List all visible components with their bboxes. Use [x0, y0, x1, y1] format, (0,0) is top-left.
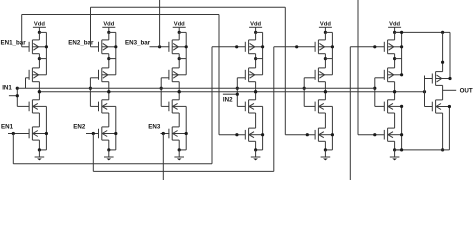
wire NMOS link stack 6 [394, 113, 396, 128]
wire EN2 lead [86, 133, 99, 135]
node body junction PMOS top stack 1 [45, 45, 48, 48]
node ground junction stack 5 [324, 148, 327, 151]
node NMOS2 body junction stack 4 [261, 133, 264, 136]
wire EN3 lead [161, 133, 170, 135]
wire EN2 drop [92, 134, 94, 172]
node gate bus on IN1 line stack 5 [303, 87, 306, 90]
wire NMOS1 gate stub stack 1 [17, 105, 29, 107]
wire body bus stack 3 [185, 32, 187, 74]
wire EN3_bar lead [150, 46, 170, 48]
node body junction PMOS top stack 4 [261, 45, 264, 48]
wire PMOS2 gate stub stack 2 [90, 77, 98, 79]
transistor PMOS bottom stack 4 [244, 70, 246, 80]
wire output NMOS gate stub [425, 106, 433, 108]
svg-text:Vdd: Vdd [320, 21, 331, 27]
node ground junction stack 6 [393, 148, 396, 151]
node output junction stack 1 [38, 90, 41, 93]
node NMOS2 body junction stack 2 [114, 132, 117, 135]
wire bus top stack 1 [39, 31, 46, 33]
wire ground route stack6 to output [395, 149, 450, 151]
wire bus to ground junction stack 5 [325, 149, 332, 151]
wire source-drain link stack 3 [178, 54, 180, 68]
wire EN1 lead [8, 133, 29, 135]
wire EN1 drop [12, 134, 14, 164]
wire body bus stack 1 [45, 32, 47, 74]
wire NMOS2 source stack 2 [108, 140, 110, 150]
svg-text:Vdd: Vdd [103, 21, 114, 27]
wire NMOS bus stack 5 [331, 106, 333, 149]
wire drain column stack 4 [255, 32, 257, 40]
node EN1 junction [12, 132, 15, 135]
wire PMOS2 drain to output stack 6 [394, 82, 396, 92]
wire NMOS1 drain stack 6 [394, 92, 396, 100]
transistor PMOS bottom stack 1 [28, 70, 30, 80]
transistor NMOS bottom stack 6 [383, 130, 385, 140]
wire output inverter body bus drop [449, 32, 451, 78]
wire PMOS2 bus tap stack 6 [395, 58, 402, 60]
wire NMOS1 drain stack 4 [255, 92, 257, 100]
node rail bus tap stack 6 [400, 31, 403, 34]
ground symbol stack 4 [255, 150, 257, 157]
wire shared output line [39, 91, 424, 93]
node PMOS2 source junction stack 3 [178, 57, 181, 60]
wire NMOS1 gate stub stack 3 [161, 105, 169, 107]
transistor PMOS bottom stack 3 [168, 70, 170, 80]
wire bus to ground junction stack 1 [39, 149, 46, 151]
node ground junction stack 4 [254, 148, 257, 151]
wire output PMOS supply drop [442, 32, 444, 71]
node output junction stack 6 [393, 90, 396, 93]
transistor output NMOS [431, 102, 433, 112]
wire PMOS2 drain to output stack 2 [108, 82, 110, 92]
svg-text:Vdd: Vdd [34, 21, 45, 27]
node output NMOS body junction [448, 105, 451, 108]
wire EN1 to stack4 PMOS1 gate [212, 46, 245, 48]
node Vdd-drain junction stack 3 [178, 31, 181, 34]
wire gate bus stack 3 [160, 78, 162, 107]
node stack6 PMOS2 body junction [400, 73, 403, 76]
node gate bus on IN1 line stack 6 [373, 87, 376, 90]
wire PMOS2 bus tap stack 4 [256, 58, 263, 60]
node PMOS2 source junction stack 5 [324, 57, 327, 60]
node ground junction stack 2 [107, 148, 110, 151]
wire PMOS2 gate stub stack 1 [26, 77, 30, 79]
wire NMOS link stack 1 [38, 113, 40, 127]
ground symbol stack 2 [108, 150, 110, 157]
svg-text:OUT: OUT [460, 88, 473, 95]
wire bus top stack 6 [395, 31, 402, 33]
node output junction stack 2 [107, 90, 110, 93]
wire source-drain link stack 2 [108, 54, 110, 68]
node output junction stack 3 [178, 90, 181, 93]
wire PMOS2 drain to output stack 3 [178, 82, 180, 92]
node output line stack taps [38, 90, 41, 93]
wire Vdd rail to output inverter [395, 31, 450, 33]
wire drain column stack 3 [178, 32, 180, 40]
svg-text:Vdd: Vdd [389, 21, 400, 27]
wire EN1_bar to stack4 NMOS2 gate [219, 134, 245, 136]
wire EN2_bar top route [91, 6, 286, 8]
transistor output PMOS [431, 74, 433, 84]
node stack6 NMOS1 body junction [400, 105, 403, 108]
wire NMOS1 gate stub stack 5 [304, 105, 315, 107]
wire NMOS bus stack 2 [115, 106, 117, 149]
wire body bus stack 2 [115, 32, 117, 74]
wire source-drain link stack 5 [324, 54, 326, 68]
wire gate bus stack 4 [236, 78, 238, 107]
wire EN1_bar drop [21, 15, 23, 47]
wire body bus stack 4 [262, 32, 264, 74]
wire gate bus stack 5 [303, 78, 305, 107]
node Vdd-drain junction stack 4 [254, 31, 257, 34]
node PMOS2 source junction stack 1 [38, 57, 41, 60]
wire output NMOS body bus drop [448, 107, 450, 150]
svg-text:EN3: EN3 [148, 123, 161, 130]
wire NMOS2 source stack 3 [178, 140, 180, 150]
wire output inverter gate bus [424, 76, 426, 107]
node ground junction stack 1 [38, 148, 41, 151]
wire NMOS1 drain stack 2 [108, 92, 110, 100]
wire IN2 lead [223, 93, 237, 95]
node Vdd-drain junction stack 6 [393, 31, 396, 34]
node gate bus on IN1 line stack 2 [89, 87, 92, 90]
wire NMOS2 source stack 4 [255, 141, 257, 150]
wire NMOS2 source stack 5 [324, 141, 326, 150]
wire NMOS bus stack 4 [262, 106, 264, 149]
node rail output supply tap [441, 31, 444, 34]
ground symbol stack 5 [324, 150, 326, 157]
wire NMOS1 gate stub stack 4 [237, 105, 245, 107]
node NMOS2 body junction stack 3 [185, 132, 188, 135]
node output junction stack 5 [324, 90, 327, 93]
transistor NMOS bottom stack 5 [314, 130, 316, 140]
wire source-drain link stack 6 [394, 54, 396, 68]
wire NMOS bus stack 3 [185, 106, 187, 149]
node IN1 bus top [16, 87, 19, 90]
transistor NMOS top stack 1 [28, 102, 30, 112]
wire NMOS1 drain stack 5 [324, 92, 326, 100]
wire NMOS1 gate stub stack 2 [90, 105, 98, 107]
svg-text:EN3_bar: EN3_bar [125, 40, 151, 47]
node EN1_bar gate junction [235, 133, 238, 136]
node EN3 junction [162, 132, 165, 135]
wire EN2 bottom route [93, 170, 273, 172]
transistor NMOS top stack 5 [314, 102, 316, 112]
node Vdd-drain junction stack 2 [107, 31, 110, 34]
node PMOS2 source junction stack 6 [393, 57, 396, 60]
wire PMOS2 gate stub stack 5 [304, 77, 315, 79]
wire gate bus stack 6 [374, 78, 376, 107]
wire EN1_bar drop right [218, 15, 220, 135]
node body junction PMOS top stack 2 [114, 45, 117, 48]
node EN3_bar junction [158, 45, 161, 48]
transistor NMOS bottom stack 2 [98, 129, 100, 139]
transistor PMOS bottom stack 2 [98, 70, 100, 80]
ground symbol stack 1 [38, 150, 40, 157]
transistor PMOS bottom stack 6 [383, 70, 385, 80]
node output NMOS ground junction [441, 148, 444, 151]
wire PMOS2 drain to output stack 5 [324, 82, 326, 92]
wire PMOS2 gate stub stack 4 [237, 77, 245, 79]
node NMOS2 body junction stack 5 [331, 133, 334, 136]
wire PMOS2 bus tap stack 3 [179, 58, 186, 60]
wire source-drain link stack 1 [38, 54, 40, 68]
wire EN1_bar lead [22, 46, 29, 48]
wire PMOS2 bus tap stack 2 [109, 58, 116, 60]
wire IN1 lead [9, 95, 17, 97]
wire EN3_bar drop right from top edge [357, 0, 359, 135]
wire EN1 riser [211, 47, 213, 164]
wire bus to ground junction stack 2 [109, 149, 116, 151]
wire NMOS1 drain stack 1 [38, 92, 40, 100]
node EN2_bar gate junction [306, 133, 309, 136]
wire IN1 distribution line [17, 87, 375, 89]
svg-text:IN1: IN1 [2, 85, 12, 92]
node gate bus on IN1 line stack 3 [160, 87, 163, 90]
wire EN2_bar drop right [284, 7, 286, 135]
wire drain column stack 1 [38, 32, 40, 40]
wire PMOS2 bus tap stack 5 [325, 58, 332, 60]
wire NMOS bus stack 1 [45, 106, 47, 149]
node EN1 gate junction [235, 45, 238, 48]
wire bus to ground junction stack 4 [256, 149, 263, 151]
ground symbol stack 3 [178, 150, 180, 157]
wire bus top stack 4 [256, 31, 263, 33]
wire bus top stack 3 [179, 31, 186, 33]
wire output node link [442, 85, 444, 100]
wire bus top stack 5 [325, 31, 332, 33]
wire PMOS2 drain to output stack 4 [255, 82, 257, 92]
svg-text:IN2: IN2 [223, 97, 233, 104]
wire PMOS2 gate stub stack 3 [161, 77, 169, 79]
wire EN1 bottom route [13, 163, 212, 165]
wire body bus stack 5 [331, 32, 333, 74]
transistor NMOS bottom stack 1 [28, 129, 30, 139]
transistor NMOS top stack 6 [383, 102, 385, 112]
node ground junction stack 3 [178, 148, 181, 151]
transistor PMOS top stack 3 [168, 42, 170, 52]
node output PMOS supply junction [441, 61, 444, 64]
wire NMOS2 source stack 1 [38, 140, 40, 150]
wire NMOS link stack 3 [178, 113, 180, 127]
transistor NMOS top stack 2 [98, 102, 100, 112]
node IN2 junction [236, 93, 239, 96]
node body junction PMOS top stack 6 [400, 45, 403, 48]
node EN2 junction [92, 132, 95, 135]
node Vdd-drain junction stack 5 [324, 31, 327, 34]
svg-text:EN1: EN1 [1, 123, 14, 130]
wire EN2_bar to stack5 NMOS2 gate [285, 134, 315, 136]
wire NMOS1 gate stub stack 6 [375, 105, 385, 107]
node NMOS2 body junction stack 6 [400, 133, 403, 136]
wire gate bus stack 2 [89, 78, 91, 107]
node Vdd-drain junction stack 1 [38, 31, 41, 34]
wire EN1_bar top route [22, 14, 219, 16]
wire EN2_bar drop [90, 7, 92, 47]
wire body bus stack 6 [401, 32, 403, 74]
transistor PMOS top stack 1 [28, 42, 30, 52]
node body junction PMOS top stack 3 [185, 45, 188, 48]
wire PMOS2 gate stub stack 6 [375, 77, 385, 79]
wire NMOS link stack 5 [324, 113, 326, 128]
wire NMOS link stack 2 [108, 113, 110, 127]
wire NMOS2 source stack 6 [394, 141, 396, 150]
wire PMOS2 gate riser stack 1 [25, 78, 27, 88]
node output junction stack 4 [254, 90, 257, 93]
wire EN3 riser from bottom edge [349, 47, 351, 180]
wire output NMOS source [442, 113, 444, 150]
wire EN3 to stack6 PMOS1 gate [350, 46, 384, 48]
ground symbol stack 6 [394, 150, 396, 157]
transistor PMOS top stack 2 [98, 42, 100, 52]
wire NMOS1 drain stack 3 [178, 92, 180, 100]
node EN3_bar gate junction [373, 133, 376, 136]
wire bus to ground junction stack 6 [395, 149, 402, 151]
wire NMOS link stack 4 [255, 113, 257, 128]
svg-text:EN2: EN2 [73, 123, 86, 130]
wire PMOS2 drain to output stack 1 [38, 82, 40, 92]
wire gate bus stack 1 [16, 88, 18, 106]
node output PMOS body junction [448, 77, 451, 80]
node gate bus on IN1 line stack 4 [236, 87, 239, 90]
transistor NMOS top stack 3 [168, 102, 170, 112]
svg-text:Vdd: Vdd [174, 21, 185, 27]
transistor PMOS top stack 5 [314, 42, 316, 52]
wire bus to ground junction stack 3 [179, 149, 186, 151]
node body junction PMOS top stack 5 [331, 45, 334, 48]
node EN2 gate junction [295, 45, 298, 48]
node NMOS2 body junction stack 1 [45, 132, 48, 135]
node EN3 gate junction [373, 45, 376, 48]
wire EN2 to stack5 PMOS1 gate [274, 46, 315, 48]
wire bus top stack 2 [109, 31, 116, 33]
node ground bus tap stack 6 [400, 148, 403, 151]
wire drain column stack 5 [324, 32, 326, 40]
transistor PMOS bottom stack 5 [314, 70, 316, 80]
wire output PMOS gate stub [425, 78, 433, 80]
transistor PMOS top stack 6 [383, 42, 385, 52]
svg-text:Vdd: Vdd [250, 21, 261, 27]
wire PMOS2 bus tap stack 1 [39, 58, 46, 60]
wire NMOS bus stack 6 [401, 106, 403, 149]
wire EN3_bar to stack6 NMOS2 gate [358, 134, 384, 136]
transistor NMOS bottom stack 3 [168, 129, 170, 139]
wire EN2_bar lead [91, 46, 99, 48]
node PMOS2 source junction stack 4 [254, 57, 257, 60]
wire EN3_bar drop from top edge [159, 0, 161, 47]
svg-text:EN1_bar: EN1_bar [1, 40, 27, 47]
transistor NMOS top stack 4 [244, 102, 246, 112]
wire OUT lead [443, 89, 457, 91]
transistor NMOS bottom stack 4 [244, 130, 246, 140]
wire EN2 riser [273, 47, 275, 172]
node IN1 lead junction [16, 94, 19, 97]
wire source-drain link stack 4 [255, 54, 257, 68]
wire drain column stack 6 [394, 32, 396, 40]
node PMOS2 source junction stack 2 [107, 57, 110, 60]
transistor PMOS top stack 4 [244, 42, 246, 52]
wire EN3 drop to bottom edge [162, 134, 164, 181]
wire drain column stack 2 [108, 32, 110, 40]
